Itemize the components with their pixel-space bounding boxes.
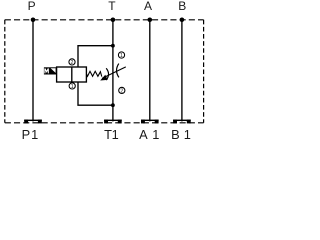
pin bubble valve 2 (69, 59, 75, 66)
solenoid coil (44, 67, 57, 74)
throttle left arc (106, 68, 108, 80)
port symbol P1 (24, 120, 42, 124)
svg-text:2: 2 (120, 88, 123, 94)
wire A line (149, 20, 151, 122)
port symbol T1 (104, 120, 122, 124)
svg-text:B: B (178, 0, 186, 13)
adjustment arrow head (100, 75, 108, 81)
svg-text:P: P (28, 0, 36, 13)
svg-text:P: P (22, 127, 31, 140)
wire valve upper branch (78, 46, 113, 67)
svg-text:A: A (139, 127, 148, 140)
wire T line (112, 20, 114, 122)
svg-text:1: 1 (184, 127, 191, 140)
solenoid mark M (45, 69, 48, 74)
svg-text:1: 1 (71, 84, 74, 90)
node P (31, 18, 36, 23)
spring (86, 71, 101, 76)
wire P line (32, 20, 34, 122)
valve V1 body (57, 67, 87, 82)
svg-text:1: 1 (120, 53, 123, 59)
svg-text:1: 1 (31, 127, 38, 140)
enclosure dashed boundary (5, 20, 204, 123)
junction lower branch to T (111, 103, 115, 107)
wire valve lower branch (78, 82, 113, 105)
junction upper branch to T (111, 44, 115, 48)
pin bubble valve 1 (69, 83, 75, 90)
wire B line (181, 20, 183, 122)
node B (180, 18, 185, 23)
pin bubble throttle 2 (119, 87, 125, 94)
svg-text:2: 2 (71, 60, 74, 66)
port symbol B1 (173, 120, 191, 124)
port symbol A1 (141, 120, 159, 124)
node T (111, 18, 116, 23)
svg-text:1: 1 (152, 127, 159, 140)
adjustment arrow shaft (102, 67, 126, 79)
svg-text:A: A (144, 0, 152, 13)
svg-text:1: 1 (112, 127, 119, 140)
throttle right arc (117, 64, 119, 78)
svg-text:T: T (108, 0, 116, 13)
svg-text:B: B (171, 127, 180, 140)
node A (148, 18, 153, 23)
solenoid mark wedge (51, 68, 56, 73)
pin bubble throttle 1 (118, 52, 124, 59)
